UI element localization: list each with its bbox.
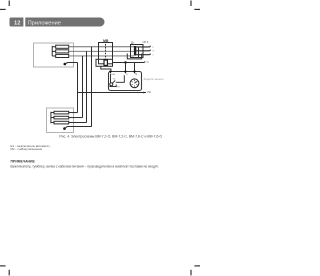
fan/heater module МВ outline bbox=[99, 43, 113, 64]
svg-text:12: 12 bbox=[14, 20, 20, 26]
svg-text:РО: РО bbox=[117, 86, 120, 88]
connector XP2 left bracket bbox=[51, 112, 54, 124]
wire bar1 to drop A bbox=[69, 112, 78, 114]
crop marks bbox=[0, 1, 200, 276]
Дт pocket bracket bbox=[127, 47, 141, 59]
terminal lead Ж bbox=[136, 50, 150, 51]
wire drop C bbox=[86, 51, 88, 122]
terminal lead С bbox=[136, 54, 150, 55]
connector XP2 (3-pin, bottom unit) bbox=[54, 111, 69, 124]
Дт thick contact bar bbox=[134, 46, 136, 56]
control panel box bbox=[109, 72, 142, 91]
device outline box (top heater unit) bbox=[34, 43, 74, 67]
header bar bbox=[10, 18, 105, 27]
wire МВ to control panel (terminal 1) bbox=[101, 66, 111, 71]
wire tap L down to panel bbox=[125, 63, 127, 72]
wire tap N down to panel bbox=[134, 63, 136, 72]
svg-text:Выключатель, тумблер, вилка с: Выключатель, тумблер, вилка с кабелем пи… bbox=[11, 164, 159, 168]
svg-text:КМ – тумблер включения: КМ – тумблер включения bbox=[11, 147, 43, 151]
wire bar2 to drop B bbox=[69, 117, 83, 119]
heating element (resistor) bbox=[104, 60, 107, 65]
terminal arrow 1 bbox=[109, 71, 111, 73]
ground clamp wire (bottom unit) bbox=[63, 127, 66, 130]
svg-text:РЕ: РЕ bbox=[147, 90, 151, 94]
svg-text:ПРИМЕЧАНИЕ: ПРИМЕЧАНИЕ bbox=[11, 159, 36, 163]
terminal lead К bbox=[136, 46, 150, 47]
wire drop D bbox=[91, 47, 93, 127]
panel internal wire t1 bbox=[110, 74, 112, 83]
junction dot L tap bbox=[124, 61, 126, 63]
svg-text:Рис. 4. Электросхемы ВМ-7,2-О,: Рис. 4. Электросхемы ВМ-7,2-О, ВМ-7,2-С,… bbox=[59, 134, 162, 138]
svg-text:N: N bbox=[147, 60, 149, 64]
wire bar3 to drop C bbox=[69, 122, 87, 124]
wire PE (to earth terminal) bbox=[78, 92, 147, 94]
svg-text:Приложение: Приложение bbox=[28, 20, 61, 26]
connector XP1 left bracket bbox=[52, 46, 56, 56]
svg-text:МВ: МВ bbox=[103, 39, 109, 43]
svg-text:Задняя панель: Задняя панель bbox=[144, 77, 165, 81]
svg-text:МВ В: МВ В bbox=[143, 41, 149, 44]
wire 1 bbox=[69, 46, 134, 48]
wire drop A (ground) bbox=[77, 63, 79, 113]
terminal arrow L bbox=[124, 71, 126, 73]
thermostat Тм bbox=[110, 83, 113, 86]
svg-text:N: N bbox=[135, 73, 137, 76]
sensor unit Дт outline bbox=[131, 45, 144, 58]
wire drop B bbox=[82, 56, 84, 118]
terminal arrow N bbox=[133, 71, 135, 73]
panel internal wire to L bbox=[116, 75, 125, 82]
wire N (line at y=62) bbox=[113, 62, 146, 63]
МВ lower housing bbox=[96, 59, 113, 66]
ground clamp wire (top unit) bbox=[64, 63, 67, 66]
device outline box (bottom unit) bbox=[47, 108, 74, 133]
selector dial bbox=[130, 79, 139, 88]
wire 2 bbox=[69, 50, 134, 52]
svg-text:Ж: Ж bbox=[152, 51, 154, 53]
wire 3 bbox=[69, 55, 134, 57]
МВ internal dashed lead bbox=[105, 44, 107, 60]
header divider bbox=[23, 18, 25, 27]
connector XP1 (3-pin, top unit) bbox=[56, 45, 69, 57]
